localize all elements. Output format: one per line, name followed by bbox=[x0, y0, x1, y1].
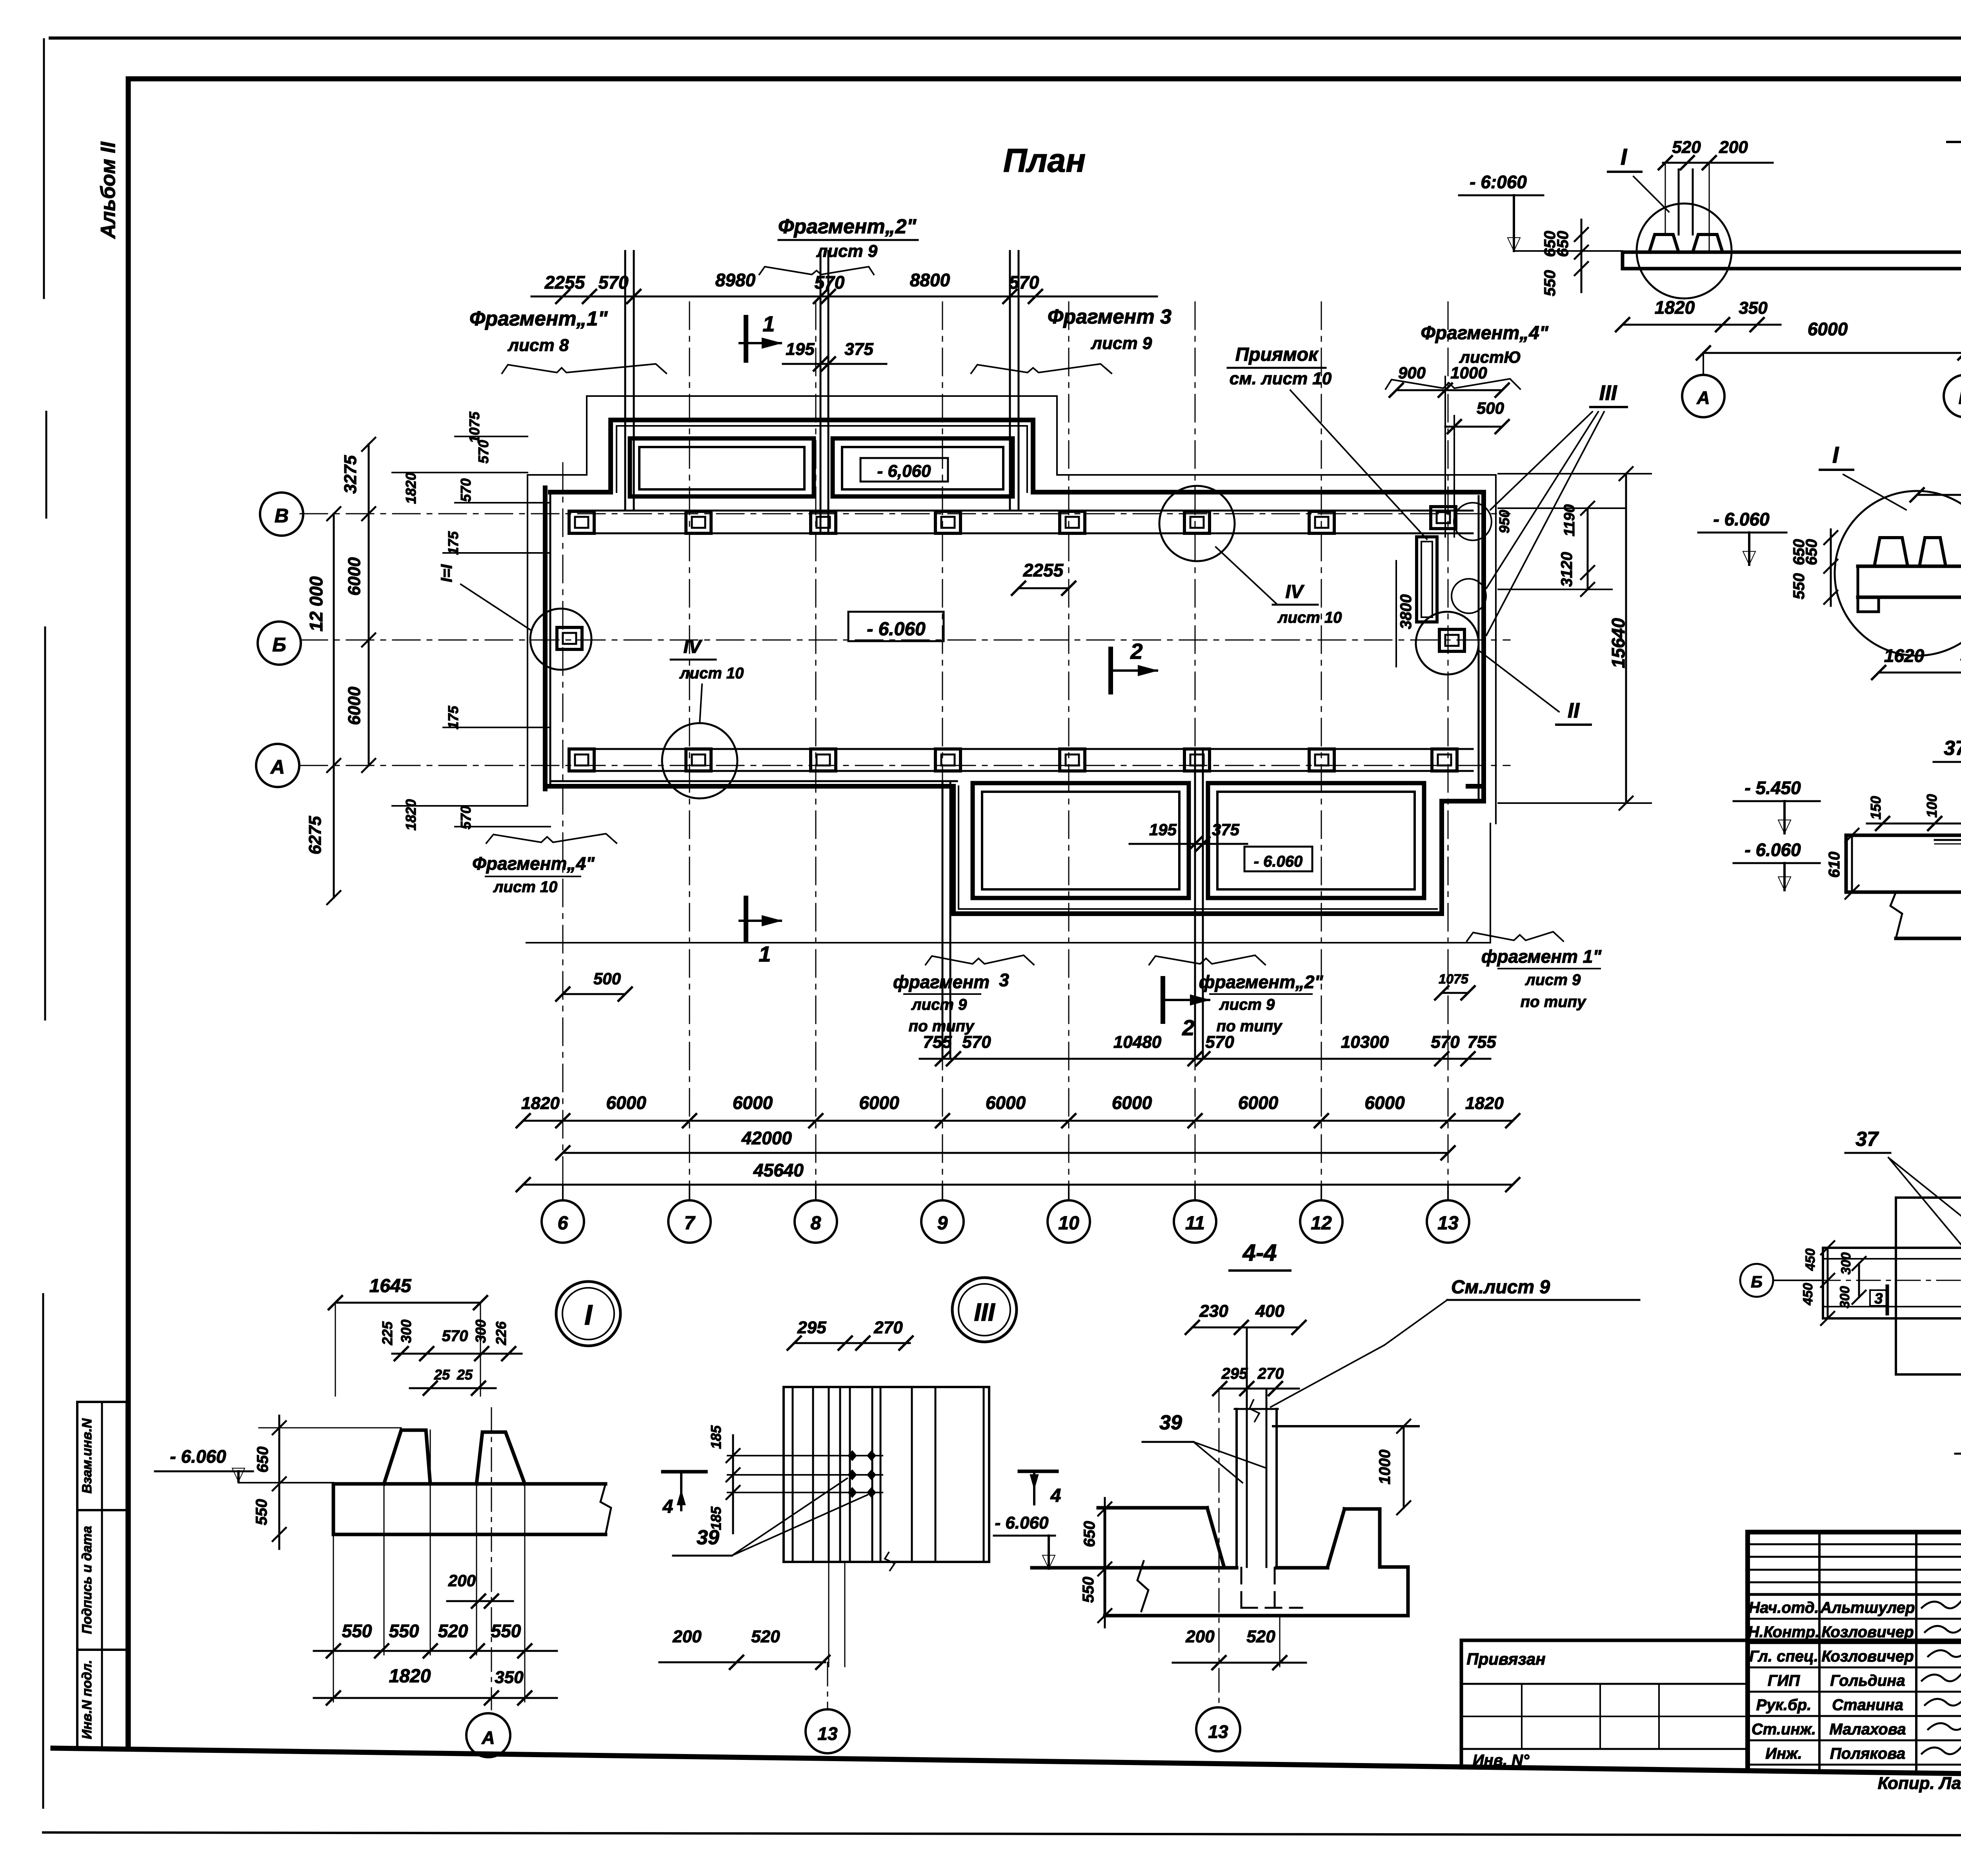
svg-text:Б: Б bbox=[272, 634, 286, 656]
svg-text:IV: IV bbox=[1285, 582, 1304, 602]
svg-text:- 6.060: - 6.060 bbox=[1254, 853, 1303, 870]
svg-text:650: 650 bbox=[254, 1447, 271, 1473]
svg-text:1820: 1820 bbox=[521, 1094, 560, 1113]
svg-text:Инв. N°: Инв. N° bbox=[1473, 1752, 1530, 1769]
svg-text:6275: 6275 bbox=[306, 816, 325, 854]
plan outer thin outline bbox=[528, 396, 1496, 475]
svg-text:7: 7 bbox=[684, 1213, 696, 1234]
detail III verticals bbox=[792, 1387, 794, 1562]
svg-text:ГИП: ГИП bbox=[1768, 1672, 1800, 1689]
detail II left band bbox=[1823, 1248, 1961, 1318]
dim row 6000s bbox=[523, 1120, 1513, 1122]
svg-text:лист 9: лист 9 bbox=[911, 996, 967, 1013]
fragment 3 brace bottom bbox=[926, 955, 1034, 965]
svg-text:I: I bbox=[1832, 442, 1839, 468]
svg-text:270: 270 bbox=[1257, 1365, 1284, 1382]
fragment 4 brace bottom left bbox=[486, 834, 617, 843]
plan main body top edge bbox=[550, 490, 611, 494]
column squares row A bbox=[569, 749, 594, 771]
svg-text:2: 2 bbox=[1130, 639, 1142, 664]
svg-text:195: 195 bbox=[1149, 820, 1177, 839]
svg-text:фрагмент„2": фрагмент„2" bbox=[1199, 972, 1324, 992]
title block name rows bbox=[1748, 1618, 1961, 1620]
svg-text:2: 2 bbox=[1182, 1015, 1194, 1040]
plan top protrusion outline bbox=[611, 420, 1033, 492]
svg-text:500: 500 bbox=[593, 969, 621, 988]
detail III block bbox=[784, 1387, 989, 1562]
svg-text:См.лист 9: См.лист 9 bbox=[1451, 1277, 1550, 1298]
section mark 2 top bbox=[1108, 649, 1113, 692]
svg-text:1820: 1820 bbox=[403, 799, 419, 831]
svg-text:450: 450 bbox=[1803, 1249, 1818, 1271]
svg-text:42000: 42000 bbox=[741, 1128, 792, 1148]
plan main body bottom edge bbox=[545, 784, 953, 789]
svg-text:1: 1 bbox=[762, 311, 775, 336]
fragment 4 brace top right bbox=[1386, 379, 1520, 389]
grid horizontals A B V bbox=[300, 513, 1510, 514]
svg-text:фрагмент: фрагмент bbox=[893, 972, 990, 992]
sheet outer border top bbox=[50, 36, 1961, 40]
svg-text:230: 230 bbox=[1199, 1302, 1228, 1321]
corner column B right bbox=[1439, 629, 1464, 651]
svg-text:Малахова: Малахова bbox=[1829, 1721, 1906, 1738]
section mark 4 right bbox=[1019, 1470, 1057, 1473]
svg-text:570: 570 bbox=[442, 1327, 468, 1345]
section 3-3 lower slab bbox=[1846, 891, 1961, 894]
svg-text:650: 650 bbox=[1803, 539, 1820, 565]
signatures bbox=[1922, 1600, 1961, 1608]
detail circle IV bottom bbox=[662, 723, 737, 798]
svg-text:45640: 45640 bbox=[753, 1160, 804, 1180]
section 3-3 top plate bbox=[1935, 839, 1961, 841]
detail 4-4 socket dashed bbox=[1241, 1568, 1242, 1608]
svg-text:В: В bbox=[275, 505, 289, 527]
svg-text:- 6.060: - 6.060 bbox=[170, 1446, 226, 1467]
sheet outer border bottom bbox=[43, 1832, 1961, 1836]
inner frame top bbox=[128, 76, 1961, 82]
top dimension line bbox=[531, 296, 1157, 298]
svg-text:лист 9: лист 9 bbox=[1091, 334, 1152, 353]
svg-text:лист 9: лист 9 bbox=[1219, 996, 1275, 1013]
section 2-2 slab bbox=[1858, 565, 1961, 568]
svg-text:Инж.: Инж. bbox=[1765, 1745, 1802, 1762]
level mark -6.060 top opening bbox=[860, 458, 948, 482]
svg-text:755: 755 bbox=[1467, 1033, 1496, 1052]
svg-text:950: 950 bbox=[1496, 510, 1512, 533]
svg-text:755: 755 bbox=[923, 1033, 952, 1052]
detail II axis horizontal bbox=[1777, 1280, 1961, 1281]
section 3 mark left bbox=[1870, 1290, 1887, 1306]
detail 4-4 break mark bbox=[1137, 1561, 1148, 1611]
svg-text:- 6.060: - 6.060 bbox=[1745, 840, 1801, 860]
svg-text:6000: 6000 bbox=[1238, 1093, 1279, 1113]
detail circle B right bbox=[1416, 612, 1479, 674]
grid circles bottom bbox=[562, 1185, 564, 1200]
svg-text:Фрагмент„1": Фрагмент„1" bbox=[469, 307, 608, 330]
svg-text:- 6.060: - 6.060 bbox=[1713, 509, 1770, 529]
svg-text:Н.Контр.: Н.Контр. bbox=[1748, 1623, 1820, 1641]
svg-text:226: 226 bbox=[493, 1321, 509, 1345]
svg-text:500: 500 bbox=[1477, 399, 1504, 417]
svg-text:1820: 1820 bbox=[403, 473, 419, 504]
label III leaders bbox=[1490, 412, 1592, 510]
section cut verticals top bbox=[624, 251, 626, 511]
svg-text:1190: 1190 bbox=[1561, 504, 1578, 536]
svg-text:- 6.060: - 6.060 bbox=[867, 619, 926, 640]
svg-text:6000: 6000 bbox=[1112, 1093, 1152, 1113]
svg-text:650: 650 bbox=[1554, 231, 1572, 257]
svg-text:Альбом II: Альбом II bbox=[97, 141, 120, 239]
svg-text:Приямок: Приямок bbox=[1235, 344, 1319, 365]
svg-text:100: 100 bbox=[1924, 794, 1940, 818]
svg-text:550: 550 bbox=[253, 1499, 270, 1525]
svg-text:6000: 6000 bbox=[733, 1093, 773, 1113]
grid circle V bbox=[260, 493, 303, 536]
svg-text:610: 610 bbox=[1826, 852, 1843, 878]
svg-text:1000: 1000 bbox=[1376, 1450, 1393, 1485]
svg-text:200: 200 bbox=[1185, 1627, 1215, 1646]
detail circle I-I at B left bbox=[530, 609, 591, 670]
svg-text:300: 300 bbox=[398, 1320, 414, 1343]
small detail circles right edge bbox=[1454, 503, 1492, 540]
svg-text:520: 520 bbox=[1672, 138, 1701, 157]
detail III grid circle 13 bbox=[827, 1662, 828, 1709]
svg-text:570: 570 bbox=[1009, 272, 1039, 293]
svg-text:- 6:060: - 6:060 bbox=[1470, 172, 1527, 192]
svg-text:4: 4 bbox=[662, 1496, 673, 1517]
left attachment box bbox=[1460, 1640, 1463, 1768]
dim row 42000 bbox=[563, 1152, 1448, 1154]
fragment 2 brace bottom bbox=[1149, 955, 1265, 965]
svg-text:12: 12 bbox=[1311, 1213, 1332, 1234]
svg-text:1075: 1075 bbox=[466, 411, 482, 443]
section mark 4 left bbox=[663, 1470, 706, 1474]
grid circle A bbox=[256, 744, 299, 787]
svg-text:4: 4 bbox=[1050, 1485, 1061, 1506]
pryamok pit rectangle bbox=[1417, 537, 1437, 622]
svg-text:550: 550 bbox=[1080, 1577, 1097, 1603]
svg-text:6000: 6000 bbox=[986, 1093, 1026, 1113]
svg-text:Козловичер: Козловичер bbox=[1821, 1623, 1914, 1641]
svg-text:1620: 1620 bbox=[1884, 645, 1925, 666]
detail I vertical ext lines bbox=[333, 1534, 334, 1702]
svg-text:10480: 10480 bbox=[1113, 1033, 1162, 1052]
svg-text:195: 195 bbox=[786, 340, 815, 359]
svg-text:3120: 3120 bbox=[1558, 552, 1575, 587]
detail II main rect bbox=[1896, 1198, 1961, 1374]
svg-text:1820: 1820 bbox=[1655, 297, 1695, 318]
svg-text:39: 39 bbox=[1159, 1411, 1182, 1434]
svg-text:1820: 1820 bbox=[1465, 1094, 1504, 1113]
svg-text:570: 570 bbox=[1431, 1033, 1460, 1052]
svg-text:570: 570 bbox=[1205, 1033, 1234, 1052]
svg-text:650: 650 bbox=[1081, 1521, 1098, 1547]
svg-text:II: II bbox=[1568, 699, 1580, 722]
margin box Inv.N podl. bbox=[77, 1650, 127, 1749]
svg-text:8980: 8980 bbox=[715, 270, 756, 290]
svg-text:лист 10: лист 10 bbox=[1277, 609, 1342, 626]
svg-text:13: 13 bbox=[817, 1723, 838, 1744]
svg-text:9: 9 bbox=[937, 1213, 948, 1234]
plan bottom thin offset line bbox=[526, 942, 1490, 943]
svg-text:III: III bbox=[974, 1298, 995, 1326]
svg-text:375: 375 bbox=[844, 340, 873, 359]
svg-text:1820: 1820 bbox=[389, 1666, 431, 1687]
svg-text:200: 200 bbox=[1719, 138, 1748, 157]
inner frame bottom bbox=[53, 1748, 1961, 1781]
svg-text:400: 400 bbox=[1255, 1302, 1284, 1321]
svg-text:Козловичер: Козловичер bbox=[1821, 1648, 1914, 1665]
detail I grid circle A bbox=[466, 1713, 510, 1757]
svg-text:175: 175 bbox=[445, 705, 461, 729]
top opening 2 frame bbox=[833, 438, 1013, 496]
left dim line 3275-6000 bbox=[368, 444, 370, 765]
svg-text:550: 550 bbox=[1541, 270, 1559, 296]
title block outline bbox=[1748, 1530, 1961, 1534]
svg-text:175: 175 bbox=[445, 531, 461, 555]
svg-text:фрагмент 1": фрагмент 1" bbox=[1481, 946, 1602, 967]
detail III rebar dots bbox=[848, 1450, 857, 1461]
detail 4-4 upper floor line bbox=[1273, 1425, 1419, 1427]
section 1-1 teeth left pair bbox=[1649, 234, 1679, 252]
svg-text:520: 520 bbox=[438, 1621, 468, 1641]
svg-text:- 5.450: - 5.450 bbox=[1745, 778, 1801, 798]
svg-text:185: 185 bbox=[708, 1425, 724, 1449]
fragment 3 brace bbox=[971, 364, 1111, 373]
svg-text:лист 10: лист 10 bbox=[493, 878, 558, 896]
detail circle I on 1-1 bbox=[1637, 204, 1732, 298]
svg-text:Б: Б bbox=[1751, 1272, 1763, 1291]
svg-text:570: 570 bbox=[458, 478, 474, 502]
svg-text:Копир. Лаврухино: Копир. Лаврухино bbox=[1878, 1774, 1961, 1793]
section 3-3 upper slab left bbox=[1845, 835, 1848, 892]
detail circle IV top bbox=[1159, 486, 1235, 561]
svg-text:570: 570 bbox=[475, 440, 491, 464]
detail 4-4 slab profile bbox=[1098, 1506, 1207, 1510]
svg-text:I=I: I=I bbox=[438, 564, 455, 582]
svg-text:520: 520 bbox=[751, 1627, 780, 1646]
svg-text:Инв.N подл.: Инв.N подл. bbox=[80, 1660, 95, 1739]
svg-text:3800: 3800 bbox=[1397, 594, 1415, 629]
margin box Podpis i data bbox=[77, 1510, 127, 1650]
svg-text:225: 225 bbox=[379, 1321, 395, 1345]
pryamok leader bbox=[1290, 390, 1427, 539]
svg-text:295: 295 bbox=[1221, 1365, 1248, 1382]
svg-text:А: А bbox=[1696, 387, 1710, 408]
svg-text:I: I bbox=[584, 1300, 593, 1331]
svg-text:Фрагмент 3: Фрагмент 3 bbox=[1048, 305, 1172, 328]
detail I slab bbox=[333, 1482, 606, 1486]
title block top mini rows bbox=[1748, 1543, 1961, 1545]
grid verticals 6-13 bbox=[562, 463, 564, 1199]
svg-text:лист 9: лист 9 bbox=[1525, 971, 1581, 989]
left dim line 12000-6275 bbox=[333, 514, 335, 765]
svg-text:375: 375 bbox=[1212, 820, 1240, 839]
svg-text:Рук.бр.: Рук.бр. bbox=[1756, 1696, 1812, 1714]
svg-text:300: 300 bbox=[1839, 1252, 1854, 1275]
svg-text:295: 295 bbox=[797, 1318, 826, 1337]
svg-text:520: 520 bbox=[1246, 1627, 1275, 1646]
bottom opening 1 frame bbox=[973, 783, 1189, 898]
fragment 1 brace bottom right bbox=[1467, 932, 1563, 941]
svg-text:- 6.060: - 6.060 bbox=[995, 1513, 1049, 1532]
svg-text:37: 37 bbox=[1944, 737, 1961, 760]
column squares row V bbox=[569, 511, 594, 533]
detail 4-4 axis and circle 13 bbox=[1219, 1389, 1220, 1708]
svg-text:11: 11 bbox=[1185, 1213, 1205, 1234]
svg-text:550: 550 bbox=[389, 1621, 419, 1641]
svg-text:39: 39 bbox=[697, 1526, 719, 1549]
svg-text:Альтшулер: Альтшулер bbox=[1820, 1599, 1915, 1616]
svg-text:2255: 2255 bbox=[544, 272, 586, 293]
svg-text:200: 200 bbox=[448, 1571, 476, 1590]
svg-text:150: 150 bbox=[1868, 796, 1884, 820]
corner column B left bbox=[557, 627, 582, 649]
fragment 2 brace bbox=[759, 267, 874, 274]
svg-text:А: А bbox=[481, 1727, 495, 1748]
svg-text:25: 25 bbox=[457, 1367, 473, 1383]
edge beam line row A bbox=[569, 748, 1473, 750]
plan main body left edge bbox=[543, 488, 548, 789]
edge beam line row V bbox=[569, 510, 1473, 512]
inner frame left bbox=[126, 79, 131, 1749]
detail 4-4 column bbox=[1235, 1409, 1238, 1567]
svg-text:6000: 6000 bbox=[1808, 319, 1848, 339]
section mark 1 top bbox=[744, 317, 748, 360]
svg-text:лист 9: лист 9 bbox=[816, 242, 878, 261]
grid circle A 1-1 bbox=[1703, 353, 1704, 374]
svg-text:по типу: по типу bbox=[1521, 993, 1586, 1011]
svg-text:200: 200 bbox=[672, 1627, 702, 1646]
svg-text:570: 570 bbox=[598, 272, 629, 293]
bottom opening 2 frame bbox=[1208, 783, 1424, 898]
detail I teeth bbox=[384, 1430, 430, 1484]
svg-text:Привязан: Привязан bbox=[1466, 1650, 1545, 1668]
svg-text:Гольдина: Гольдина bbox=[1830, 1672, 1905, 1689]
svg-text:Взам.инв.N: Взам.инв.N bbox=[80, 1418, 95, 1494]
title block staff columns bbox=[1818, 1532, 1821, 1772]
svg-text:3: 3 bbox=[1874, 1291, 1883, 1307]
svg-text:1645: 1645 bbox=[369, 1276, 412, 1296]
title block middle divider bbox=[1461, 1639, 1961, 1642]
svg-text:550: 550 bbox=[491, 1621, 521, 1641]
svg-text:300: 300 bbox=[473, 1320, 489, 1343]
section cut verticals bottom bbox=[942, 782, 944, 1059]
margin box Vzam.inv.N bbox=[77, 1402, 127, 1510]
plan bottom protrusion outline bbox=[953, 786, 1442, 914]
svg-text:270: 270 bbox=[873, 1318, 903, 1337]
svg-text:А: А bbox=[270, 756, 285, 778]
svg-text:лист 8: лист 8 bbox=[508, 336, 569, 355]
svg-text:6000: 6000 bbox=[1364, 1093, 1405, 1113]
svg-text:лист 10: лист 10 bbox=[679, 665, 744, 682]
detail I axis bbox=[491, 1408, 492, 1710]
svg-text:12 000: 12 000 bbox=[306, 576, 326, 631]
svg-text:13: 13 bbox=[1208, 1721, 1228, 1742]
svg-text:Фрагмент„4": Фрагмент„4" bbox=[472, 853, 595, 874]
svg-text:Б: Б bbox=[1959, 387, 1961, 408]
detail I big label bbox=[556, 1282, 620, 1346]
svg-text:1: 1 bbox=[759, 942, 771, 966]
svg-text:300: 300 bbox=[1837, 1286, 1852, 1309]
svg-text:350: 350 bbox=[495, 1668, 524, 1687]
svg-text:Фрагмент„4": Фрагмент„4" bbox=[1421, 323, 1548, 344]
section 1-1 slab bbox=[1623, 251, 1961, 254]
section 2-2 teeth left pair bbox=[1874, 538, 1908, 566]
svg-text:4-4: 4-4 bbox=[1242, 1240, 1277, 1266]
svg-text:3: 3 bbox=[999, 970, 1009, 990]
section mark 1 bottom bbox=[744, 898, 748, 941]
detail circle I on 2-2 bbox=[1835, 491, 1961, 656]
svg-text:450: 450 bbox=[1801, 1283, 1815, 1306]
level mark -6.060 bottom opening bbox=[1244, 847, 1312, 871]
svg-text:Станина: Станина bbox=[1832, 1696, 1903, 1714]
svg-text:13: 13 bbox=[1437, 1213, 1459, 1234]
section mark 2 bottom bbox=[1161, 978, 1165, 1022]
section 1-1 column left bbox=[1678, 169, 1680, 234]
detail III big label bbox=[952, 1278, 1017, 1342]
plan main body right edge bbox=[1481, 492, 1486, 801]
svg-text:570: 570 bbox=[962, 1033, 991, 1052]
svg-text:- 6,060: - 6,060 bbox=[877, 462, 931, 481]
svg-text:1000: 1000 bbox=[1450, 364, 1487, 382]
level mark -6.060 main body bbox=[848, 612, 944, 641]
svg-text:1075: 1075 bbox=[1439, 972, 1469, 987]
svg-text:Ст.инж.: Ст.инж. bbox=[1752, 1721, 1816, 1738]
svg-text:10: 10 bbox=[1058, 1213, 1079, 1234]
svg-text:6000: 6000 bbox=[606, 1093, 646, 1113]
svg-text:III: III bbox=[1599, 381, 1617, 405]
svg-text:3275: 3275 bbox=[341, 455, 360, 494]
svg-text:6: 6 bbox=[558, 1213, 568, 1234]
top opening 1 frame bbox=[630, 438, 814, 496]
svg-text:Фрагмент„2": Фрагмент„2" bbox=[778, 215, 917, 238]
svg-text:8: 8 bbox=[811, 1213, 821, 1234]
svg-text:10300: 10300 bbox=[1341, 1033, 1389, 1052]
svg-text:25: 25 bbox=[434, 1367, 450, 1383]
svg-text:6000: 6000 bbox=[345, 557, 364, 596]
svg-text:6000: 6000 bbox=[345, 687, 364, 725]
svg-text:37: 37 bbox=[1855, 1128, 1879, 1151]
svg-text:Нач.отд.: Нач.отд. bbox=[1748, 1599, 1819, 1616]
svg-text:550: 550 bbox=[342, 1621, 372, 1641]
svg-text:Полякова: Полякова bbox=[1830, 1745, 1905, 1762]
circle B detail II bbox=[1740, 1264, 1773, 1297]
svg-text:900: 900 bbox=[1398, 364, 1426, 382]
svg-text:570: 570 bbox=[815, 272, 845, 293]
svg-text:8800: 8800 bbox=[910, 270, 950, 290]
grid circle B bbox=[258, 622, 301, 665]
dim row fragments bbox=[920, 1058, 1490, 1060]
svg-text:Подпись и дата: Подпись и дата bbox=[80, 1526, 95, 1634]
svg-text:IV: IV bbox=[683, 636, 702, 657]
sheet outer border left (partial) bbox=[43, 39, 45, 298]
svg-text:550: 550 bbox=[1790, 573, 1808, 600]
svg-text:План: План bbox=[1003, 142, 1086, 179]
svg-text:см. лист 10: см. лист 10 bbox=[1230, 369, 1332, 388]
dim row 45640 bbox=[523, 1184, 1513, 1186]
svg-text:Гл. спец.: Гл. спец. bbox=[1749, 1648, 1818, 1665]
fragment 1 brace bbox=[502, 364, 666, 373]
svg-text:6000: 6000 bbox=[859, 1093, 899, 1113]
detail III horizontal bars bbox=[728, 1455, 882, 1456]
svg-text:I: I bbox=[1621, 144, 1628, 170]
svg-text:2255: 2255 bbox=[1023, 560, 1064, 580]
svg-text:350: 350 bbox=[1739, 298, 1768, 318]
